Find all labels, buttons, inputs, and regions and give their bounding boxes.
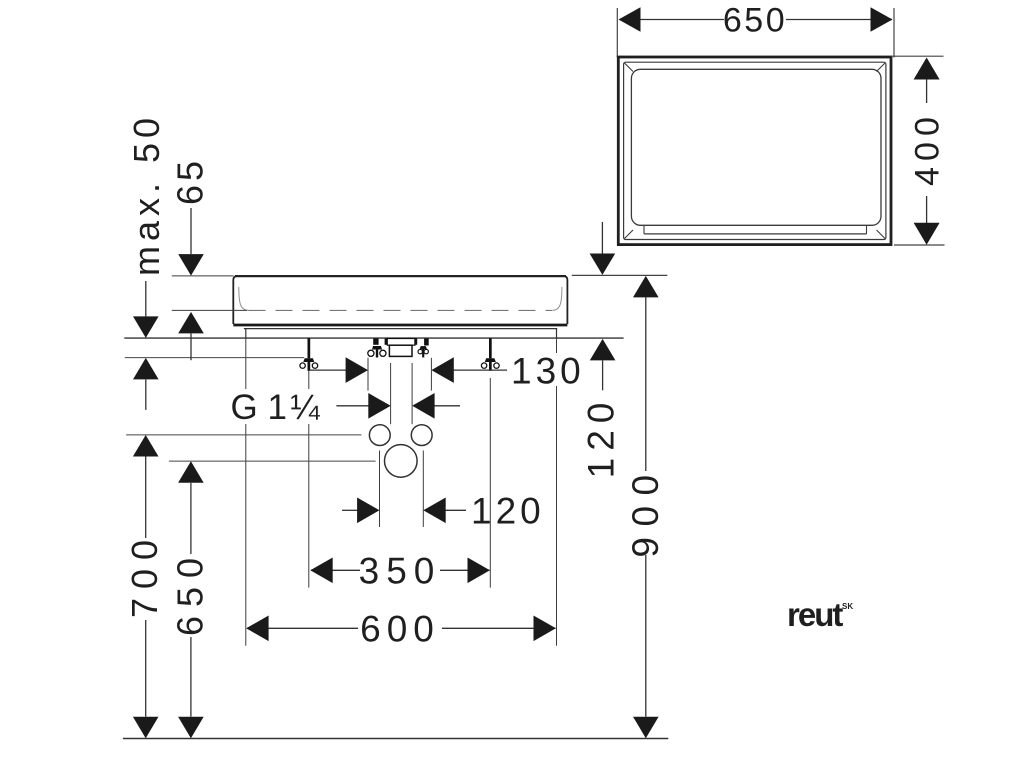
top view: dimension 400 extension lines xyxy=(891,56,945,245)
floor line xyxy=(123,738,668,740)
svg-text:65: 65 xyxy=(170,157,211,205)
svg-text:400: 400 xyxy=(909,111,947,186)
front view: plinth line xyxy=(244,328,557,330)
svg-text:SK: SK xyxy=(842,602,853,611)
svg-text:G 1¼: G 1¼ xyxy=(231,388,321,427)
top view: dimension 400 line with arrows xyxy=(926,79,928,224)
extension: G 1 1/4 sides xyxy=(391,363,413,424)
extension: 130 left and right xyxy=(368,358,431,391)
top view: basin outer rectangle xyxy=(618,57,891,245)
dimension 600 xyxy=(247,627,556,629)
front view: basin outline xyxy=(233,276,567,324)
svg-text:900: 900 xyxy=(625,464,666,557)
svg-text:650: 650 xyxy=(169,549,210,636)
svg-text:650: 650 xyxy=(723,2,787,40)
drain assembly under basin xyxy=(368,339,429,358)
svg-text:120: 120 xyxy=(471,491,545,532)
dimension 120 horizontal xyxy=(342,509,466,511)
rim-top reference line right xyxy=(572,274,668,276)
wall line xyxy=(124,337,623,339)
svg-text:120: 120 xyxy=(581,396,622,479)
top view: bowl rim rounded rectangle xyxy=(631,69,881,225)
left wall bolt xyxy=(300,338,318,371)
extension: 600 left (broken at G label) xyxy=(245,338,247,646)
svg-text:max. 50: max. 50 xyxy=(126,113,167,276)
svg-text:350: 350 xyxy=(359,551,442,592)
dimension 900 xyxy=(633,276,659,298)
top view: corner diagonal ticks xyxy=(625,63,886,239)
front view: rim-top extension line left xyxy=(172,275,234,277)
700 reference line xyxy=(126,434,361,436)
svg-text:600: 600 xyxy=(360,609,440,650)
extension: 350 right below bolt xyxy=(489,378,491,588)
dimension 130 xyxy=(310,369,507,371)
dimension 120 vertical right xyxy=(590,339,616,361)
top view: dimension 650 line xyxy=(620,19,893,21)
top view: basin inner edge line xyxy=(624,62,886,239)
top view: bowl front ledge line xyxy=(644,233,867,235)
65 lower extension line xyxy=(172,309,247,311)
front view: inner bowl corner curves xyxy=(239,287,249,310)
svg-text:700: 700 xyxy=(124,531,165,618)
650 reference line xyxy=(169,460,376,462)
front view: plinth sides xyxy=(246,329,557,338)
svg-text:reut: reut xyxy=(787,596,843,633)
top view: ledge end ticks xyxy=(644,225,867,234)
drain hole: large circle xyxy=(385,445,418,478)
extension: 600 right (broken at 130 label) xyxy=(556,338,558,646)
extension: 120 horizontal sides xyxy=(380,451,424,528)
max50 lower reference line xyxy=(125,357,304,359)
svg-text:130: 130 xyxy=(511,350,585,391)
view join marker stem and arrow xyxy=(601,222,603,254)
dimension 650 left xyxy=(178,461,204,483)
front view: inner bottom dashed line xyxy=(249,309,553,311)
dimension 350 xyxy=(311,569,490,571)
dimension 700 xyxy=(133,435,159,457)
front view: basin bottom edge xyxy=(233,324,567,327)
top view: dimension 650 extension lines xyxy=(617,8,894,58)
top view: dimension 650 arrowheads xyxy=(619,7,893,32)
right wall bolt xyxy=(481,338,499,371)
fixing holes: small circles xyxy=(369,425,390,446)
extension: 350 left below bolt (broken at 1 1/4 label) xyxy=(308,371,310,588)
front view: basin top edge (heavier) xyxy=(235,275,566,277)
